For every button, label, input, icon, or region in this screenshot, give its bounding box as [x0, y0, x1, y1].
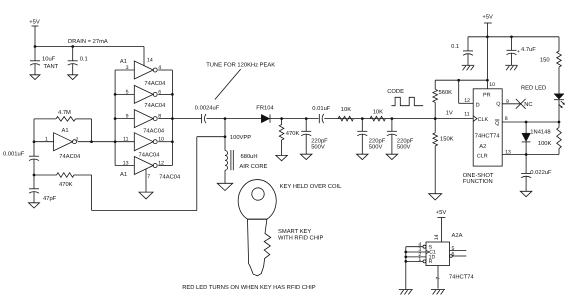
- wire LED to Qbar: [558, 100, 560, 122]
- pin 2 label: [76, 137, 79, 143]
- pin 4 label: [158, 65, 161, 71]
- pin 8 label: [505, 116, 508, 122]
- label A2: [479, 143, 486, 150]
- wire +5V to pin 14 (A2A): [441, 218, 443, 242]
- wire C 0.1 right to ground: [467, 54, 469, 66]
- wire input pin 9: [115, 118, 134, 120]
- svg-text:4.7uF: 4.7uF: [521, 47, 536, 53]
- pin 1 label (A2A): [418, 257, 421, 263]
- resistor 10K #2: [370, 108, 385, 121]
- resistor 100K: [538, 122, 561, 155]
- svg-text:0.01uF: 0.01uF: [312, 105, 331, 112]
- wire input pin 5: [115, 93, 134, 95]
- capacitor 47pF: [29, 189, 57, 202]
- resistor 560K: [433, 80, 452, 118]
- svg-text:10K: 10K: [341, 106, 351, 113]
- svg-text:9: 9: [506, 99, 509, 105]
- svg-text:+: +: [517, 49, 520, 55]
- resistor 470K shunt: [279, 119, 299, 156]
- svg-text:100VPP: 100VPP: [230, 134, 251, 141]
- svg-text:0.001uF: 0.001uF: [3, 151, 25, 158]
- svg-text:WITH RFID CHIP: WITH RFID CHIP: [278, 235, 324, 242]
- wire C 10uF to ground: [34, 64, 36, 75]
- svg-text:150K: 150K: [440, 136, 454, 143]
- label 74AC04 inv1: [144, 80, 166, 87]
- pin 5 wire (A2A): [450, 250, 467, 252]
- wire +5V rail right: [468, 36, 559, 38]
- node Qbar-LED: [558, 121, 561, 124]
- label 74HCT74 (A2A): [449, 273, 475, 280]
- wire output pin 12: [158, 165, 172, 167]
- node bus out 10: [171, 140, 174, 143]
- svg-text:CLR: CLR: [477, 153, 488, 159]
- pin 4 wire (S): [406, 245, 426, 248]
- label A2A: [452, 232, 463, 239]
- node 470K shunt junction: [280, 117, 283, 120]
- wire output pin 4: [158, 69, 172, 71]
- node coil junction: [224, 117, 227, 120]
- svg-text:74AC04: 74AC04: [144, 80, 166, 87]
- capacitor 0.001uF: [3, 151, 39, 161]
- ground (470K): [276, 155, 288, 160]
- svg-text:74AC04: 74AC04: [143, 127, 165, 134]
- svg-text:Q: Q: [495, 121, 499, 127]
- pin 2 label (A2A): [418, 252, 421, 258]
- pin 13 label: [123, 160, 129, 166]
- flip-flop U4 74HCT74 (A2A): [426, 242, 450, 266]
- inverter U2 74AC04 (pins 3-4): [134, 61, 157, 79]
- label CLK: [478, 117, 489, 123]
- svg-text:R: R: [429, 259, 433, 265]
- resistor 470K (osc): [34, 173, 92, 188]
- wire coil branch: [224, 119, 226, 151]
- wire to C 0.001uF: [33, 142, 35, 157]
- svg-text:470K: 470K: [286, 130, 300, 137]
- wire to C 4.7uF: [511, 37, 513, 51]
- wire C 47pF to ground: [33, 192, 35, 203]
- svg-text:1N4148: 1N4148: [530, 129, 550, 136]
- wire 220pF-2 to ground: [361, 134, 363, 154]
- label RED LED: [521, 86, 546, 92]
- svg-text:470K: 470K: [59, 181, 73, 188]
- node D branch: [457, 79, 460, 82]
- svg-text:CLK: CLK: [478, 117, 489, 123]
- wire diode to C 0.01uF: [270, 118, 319, 120]
- ground (220pF-2): [357, 154, 369, 159]
- pin 8 label: [158, 114, 161, 120]
- pin 2 wire (1D): [406, 256, 426, 258]
- node 220pF-1 junction: [305, 117, 308, 120]
- label SMART KEY WITH RFID CHIP: [278, 228, 324, 241]
- pin 10 label: [489, 82, 495, 88]
- label A1 top: [120, 59, 127, 65]
- pin 7 label (A2A): [435, 277, 441, 280]
- node loop junction: [224, 135, 227, 138]
- wire C to diode: [207, 118, 262, 120]
- capacitor 0.1: [68, 56, 88, 66]
- wire C 0.001uF down: [33, 159, 35, 175]
- node pin2 tie: [404, 256, 407, 259]
- label C1: [429, 249, 436, 255]
- diode 1N4148: [522, 122, 551, 155]
- svg-text:220pF: 220pF: [369, 137, 386, 144]
- wire output pin 6: [158, 93, 172, 95]
- clock wedge (C1): [426, 250, 429, 253]
- svg-text:7: 7: [435, 277, 441, 280]
- svg-text:11: 11: [123, 137, 128, 143]
- wire bus to C 0.0024uF: [172, 118, 201, 120]
- ground (coil): [217, 183, 233, 190]
- wire input pin1: [34, 141, 54, 143]
- pin 13 label: [505, 150, 511, 156]
- node junction rail-10uF: [34, 45, 37, 48]
- wire +5V down: [486, 23, 488, 37]
- svg-text:13: 13: [123, 160, 129, 166]
- node rail-PR: [486, 35, 489, 38]
- label 74AC04 inv2: [144, 102, 166, 109]
- wire D input: [459, 80, 474, 103]
- pin 11 label: [464, 112, 469, 118]
- inverter U4 74AC04 (pins 9-8): [134, 110, 157, 128]
- svg-text:74AC04: 74AC04: [59, 153, 81, 160]
- pin 3 label: [126, 65, 129, 71]
- wire feedback left: [33, 119, 35, 142]
- ground (A2A inputs): [399, 290, 413, 295]
- resistor 150: [540, 37, 561, 94]
- label ONE-SHOT FUNCTION: [463, 172, 494, 185]
- resistor 4.7M feedback: [34, 110, 92, 121]
- wire C 4.7uF to ground: [511, 53, 513, 65]
- node 220pF-2 junction: [361, 117, 364, 120]
- svg-text:0.1: 0.1: [80, 56, 88, 63]
- label 1V: [446, 110, 453, 116]
- capacitor 220pF 500V #3: [387, 119, 414, 151]
- svg-text:KEY HELD OVER COIL: KEY HELD OVER COIL: [280, 183, 343, 190]
- node bus out 6: [171, 93, 174, 96]
- svg-text:+5V: +5V: [29, 20, 40, 26]
- no-connect X: [516, 99, 526, 109]
- svg-text:10: 10: [489, 82, 495, 88]
- svg-text:14: 14: [434, 234, 440, 240]
- ground (220pF-1): [300, 154, 312, 159]
- wire C 0.1 to ground: [72, 64, 74, 75]
- wire 220pF-3 to ground: [391, 134, 393, 154]
- label KEY HELD OVER COIL: [280, 183, 343, 190]
- svg-text:0.022uF: 0.022uF: [530, 169, 552, 176]
- capacitor 220pF 500V #2: [357, 119, 385, 151]
- node pin3 tie: [404, 251, 407, 254]
- node osc output junction: [90, 140, 93, 143]
- pin 7 wire (A2A): [437, 266, 439, 289]
- ground (pin 7): [139, 192, 153, 199]
- wire input pin 3: [115, 69, 134, 71]
- capacitor 0.1 (right): [451, 43, 473, 55]
- svg-text:3: 3: [126, 65, 129, 71]
- label 680uH: [241, 153, 258, 160]
- pin 12 label: [158, 160, 164, 166]
- svg-text:680uH: 680uH: [241, 153, 258, 160]
- ground (150K): [429, 194, 442, 200]
- ground (4.7uF): [505, 65, 518, 70]
- label RED LED TURNS ON WHEN KEY HAS RFID CHIP: [182, 284, 316, 291]
- node pin1 junction: [33, 140, 36, 143]
- wire to C 0.1: [72, 47, 74, 61]
- svg-text:500V: 500V: [369, 143, 383, 150]
- wire 560K to PR rail: [435, 79, 487, 81]
- pin 4 label (A2A): [418, 242, 421, 248]
- svg-text:SMART KEY: SMART KEY: [278, 228, 311, 235]
- op-amp A1 oscillator inverter 74AC04: [54, 133, 77, 151]
- ground (0.1): [68, 75, 78, 80]
- resistor 10K #1: [338, 106, 353, 121]
- capacitor 0.0024uF: [195, 105, 220, 124]
- svg-text:1: 1: [45, 137, 48, 143]
- svg-text:FUNCTION: FUNCTION: [463, 178, 493, 185]
- ground (10uF): [30, 75, 40, 80]
- wire coil to ground: [224, 170, 226, 183]
- pin 14 label (A2A): [434, 234, 440, 240]
- svg-text:8: 8: [505, 116, 508, 122]
- wire pin 8 Qbar: [502, 121, 559, 123]
- svg-text:12: 12: [464, 98, 470, 104]
- svg-text:A2A: A2A: [452, 232, 463, 239]
- svg-text:RED LED TURNS ON WHEN KEY HAS: RED LED TURNS ON WHEN KEY HAS RFID CHIP: [182, 284, 316, 291]
- wire input bus: [114, 70, 116, 166]
- label NC: [524, 101, 532, 108]
- svg-text:A2: A2: [479, 143, 486, 150]
- capacitor 10uF TANT: [30, 56, 59, 71]
- wire 220pF-1 to ground: [305, 134, 307, 154]
- power +5V supply (bottom): [436, 210, 447, 218]
- inverter U5 74AC04 (pins 11-10): [134, 133, 157, 151]
- label 74AC04 inv3: [143, 127, 165, 134]
- svg-text:500V: 500V: [311, 143, 325, 150]
- svg-text:100K: 100K: [538, 140, 552, 147]
- wire 0.022uF to ground: [525, 176, 527, 191]
- node CLR-cap: [525, 153, 528, 156]
- label 100VPP: [230, 134, 251, 141]
- node rail-4.7uF: [510, 35, 513, 38]
- LED red: [554, 94, 565, 108]
- label 74AC04 inv5: [159, 173, 181, 180]
- pin 10 label: [158, 137, 164, 143]
- label A1 bottom: [120, 172, 127, 178]
- node bus in 9: [114, 117, 117, 120]
- wire feedback loop to tank: [92, 137, 225, 211]
- ground (220pF-3): [386, 154, 398, 159]
- label Qbar: [495, 120, 499, 127]
- inverter U6 74AC04 (pins 13-12): [134, 157, 157, 175]
- svg-text:74AC04: 74AC04: [144, 102, 166, 109]
- node Qbar-diode: [525, 121, 528, 124]
- wire pin 13 CLR: [502, 154, 559, 156]
- wire pin 14 power: [143, 47, 145, 66]
- node 470K junction: [33, 174, 36, 177]
- ground (A2A pin 7): [431, 290, 445, 295]
- wire output pin 8: [158, 118, 172, 120]
- pin 3 wire (C1): [406, 251, 426, 253]
- svg-text:A1: A1: [62, 128, 69, 134]
- ground (0.1 right): [462, 65, 475, 70]
- svg-text:220pF: 220pF: [311, 137, 328, 144]
- pin 1 wire (R): [406, 260, 426, 263]
- wire pin 7 ground: [145, 169, 147, 192]
- pin 6 label (A2A): [452, 251, 455, 257]
- wire input pin 13: [115, 165, 134, 167]
- label AIR CORE: [239, 163, 267, 170]
- svg-text:14: 14: [147, 58, 153, 64]
- label A1 (osc): [62, 128, 69, 134]
- inverter U3 74AC04 (pins 5-6): [134, 85, 157, 103]
- svg-text:150: 150: [540, 56, 550, 63]
- node bus in 5: [114, 93, 117, 96]
- capacitor 4.7uF: [507, 47, 537, 55]
- wire pin 9 Q output: [502, 103, 521, 105]
- wire to C 10uF: [34, 47, 36, 61]
- pin 5 label: [126, 89, 129, 95]
- annotation TUNE FOR 120KHz PEAK: [206, 61, 275, 99]
- label 74HCT74 (A2): [475, 132, 501, 139]
- capacitor 220pF 500V #1: [301, 119, 328, 151]
- pin 6 label: [158, 89, 161, 95]
- svg-text:220pF: 220pF: [397, 137, 414, 144]
- pin 14 label: [147, 58, 153, 64]
- svg-text:NC: NC: [524, 101, 532, 108]
- capacitor 0.022uF: [521, 155, 552, 178]
- wire output bus: [171, 70, 173, 166]
- label 74AC04 inv4: [139, 151, 161, 158]
- wire +5V to DRAIN rail: [34, 26, 36, 47]
- svg-text:AIR CORE: AIR CORE: [239, 163, 267, 170]
- pin 1 label: [45, 137, 48, 143]
- svg-text:7: 7: [147, 174, 150, 180]
- svg-text:0.0024uF: 0.0024uF: [195, 105, 220, 112]
- wire to C 0.1 right: [467, 37, 469, 51]
- clock wedge: [473, 116, 477, 122]
- node pin1 tie: [404, 260, 407, 263]
- svg-text:13: 13: [505, 150, 511, 156]
- power +5V supply (left): [29, 20, 40, 27]
- diode FR104: [256, 104, 274, 122]
- pin 11 label: [123, 137, 128, 143]
- svg-text:TANT: TANT: [44, 64, 59, 70]
- label 74AC04 (osc): [59, 153, 81, 160]
- svg-text:A1: A1: [120, 59, 127, 65]
- wire C 0.01uF to CLK: [324, 118, 473, 120]
- wire tie pins to ground: [405, 247, 407, 290]
- svg-text:CODE: CODE: [387, 88, 404, 95]
- ground (47pF): [29, 203, 40, 208]
- svg-text:9: 9: [126, 114, 129, 120]
- pin 9 label: [126, 114, 129, 120]
- label S: [429, 244, 433, 250]
- pin 7 label: [147, 174, 150, 180]
- node bus out 8: [171, 117, 174, 120]
- label Q: [496, 102, 500, 108]
- svg-text:11: 11: [464, 112, 469, 118]
- node 560K junction: [434, 117, 437, 120]
- resistor 150K: [433, 119, 454, 194]
- pin 12 label: [464, 98, 470, 104]
- wire to C 47pF: [33, 175, 35, 189]
- svg-text:6: 6: [452, 251, 455, 257]
- node bus in 11: [114, 140, 117, 143]
- svg-text:74AC04: 74AC04: [139, 151, 161, 158]
- svg-text:74HCT74: 74HCT74: [475, 132, 501, 139]
- svg-text:A1: A1: [120, 172, 127, 178]
- wire input pin 11: [115, 141, 134, 143]
- svg-text:10K: 10K: [373, 108, 383, 115]
- capacitor 0.01uF series: [312, 105, 331, 123]
- svg-text:10uF: 10uF: [42, 56, 56, 63]
- wire feedback right: [91, 119, 93, 142]
- node junction rail-0.1: [71, 45, 74, 48]
- svg-text:500V: 500V: [397, 143, 411, 150]
- annotation CODE waveform: [387, 88, 423, 106]
- svg-text:1: 1: [418, 257, 421, 263]
- pin 3 label (A2A): [418, 247, 421, 253]
- svg-text:PR: PR: [483, 92, 491, 98]
- svg-text:D: D: [476, 103, 480, 109]
- svg-text:1V: 1V: [446, 110, 453, 116]
- wire DRAIN rail: [35, 46, 144, 48]
- label 1D: [429, 254, 436, 260]
- wire pin 10 PR to +5V: [486, 37, 488, 89]
- svg-text:4.7M: 4.7M: [58, 110, 71, 116]
- smart key outline: [238, 180, 276, 276]
- svg-text:DRAIN = 27mA: DRAIN = 27mA: [68, 38, 108, 45]
- ground (0.022uF): [520, 191, 532, 196]
- pin 6 wire (A2A): [450, 255, 467, 258]
- label DRAIN = 27mA: [68, 38, 108, 45]
- label R: [429, 259, 433, 265]
- svg-text:5: 5: [126, 89, 129, 95]
- svg-text:560K: 560K: [439, 89, 453, 96]
- power +5V supply (right): [482, 14, 493, 23]
- inductor 680uH air core: [225, 150, 233, 170]
- svg-text:TUNE FOR 120KHz PEAK: TUNE FOR 120KHz PEAK: [206, 61, 275, 68]
- wire osc output: [78, 141, 116, 143]
- svg-text:74AC04: 74AC04: [159, 173, 181, 180]
- pin 5 label (A2A): [452, 246, 455, 252]
- svg-text:RED LED: RED LED: [521, 86, 546, 92]
- label CLR: [477, 153, 488, 159]
- svg-text:74HCT74: 74HCT74: [449, 273, 475, 280]
- svg-text:0.1: 0.1: [451, 43, 459, 50]
- node 220pF-3 junction: [391, 117, 394, 120]
- svg-text:+5V: +5V: [436, 210, 447, 216]
- wire output pin 10: [158, 141, 172, 143]
- pin 9 label: [506, 99, 509, 105]
- label D: [476, 103, 480, 109]
- svg-text:47pF: 47pF: [43, 196, 57, 202]
- svg-text:FR104: FR104: [256, 104, 274, 111]
- label PR: [483, 92, 491, 98]
- svg-text:+5V: +5V: [482, 14, 493, 20]
- svg-text:Q: Q: [496, 102, 500, 108]
- node PR tie: [486, 79, 489, 82]
- flip-flop U3 74HCT74 (A2): [473, 89, 502, 166]
